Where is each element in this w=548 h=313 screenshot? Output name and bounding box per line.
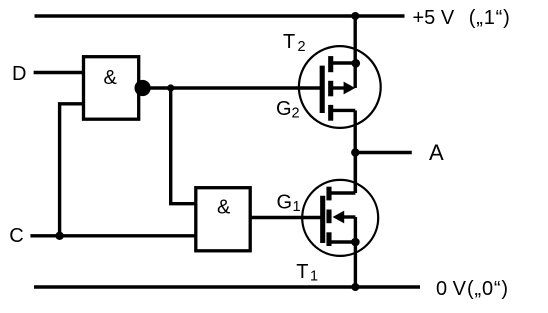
svg-text:&: & <box>217 197 231 219</box>
inverter bubble on U1 output <box>135 80 151 96</box>
svg-text:2: 2 <box>292 106 300 122</box>
svg-text:1: 1 <box>310 269 318 285</box>
wire: T1 drain up to node A <box>354 153 357 194</box>
transistor T1 (n-channel MOSFET) <box>302 153 378 288</box>
T1 gate electrode bar <box>320 196 325 243</box>
wire: U2 output to gate G1 of T1 <box>250 216 320 219</box>
svg-text:1: 1 <box>293 199 301 215</box>
node: T1 bulk-source tie <box>351 238 360 247</box>
wire: D input to upper gate <box>34 71 85 74</box>
T2 bulk arrow (points out: p-channel) <box>344 82 356 95</box>
wire: C branch up to upper gate second input <box>60 104 85 236</box>
svg-text:2: 2 <box>298 39 306 55</box>
T1 bulk stub <box>343 215 355 218</box>
svg-text:G: G <box>277 192 293 214</box>
T1 source stub <box>331 240 356 243</box>
T1 body circle <box>302 180 378 256</box>
node: C branch junction <box>55 232 63 240</box>
node: T1 source junction on 0V rail <box>351 283 359 291</box>
wire: T1 source down to 0V rail <box>354 242 357 287</box>
svg-text:(„1“): („1“) <box>469 7 510 29</box>
T2 gate electrode bar <box>320 66 325 113</box>
svg-text:T: T <box>283 31 295 53</box>
AND gate U1 (upper, output inverted) <box>84 57 139 119</box>
T1 channel dash middle (bulk) <box>326 210 331 224</box>
svg-text:(„0“): („0“) <box>467 278 508 300</box>
node A junction <box>351 148 359 156</box>
T1 channel dash top (drain) <box>326 187 331 201</box>
T1 bulk arrow (points in: n-channel) <box>333 211 345 224</box>
T1 drain stub <box>331 191 356 194</box>
svg-text:D: D <box>12 63 26 85</box>
T2 channel dash bottom (source) <box>328 105 333 121</box>
svg-text:C: C <box>9 225 23 247</box>
0V supply rail <box>34 285 420 288</box>
wire: C input to lower gate <box>30 234 195 237</box>
node: T2 bulk-drain tie <box>352 59 361 68</box>
svg-text:&: & <box>104 67 118 89</box>
node: U1 output branch junction <box>167 84 174 91</box>
T2 drain stub <box>332 61 355 64</box>
wire: T1 bulk tie down to source <box>354 217 357 242</box>
svg-text:G: G <box>276 98 292 120</box>
T2 channel dash top (drain) <box>328 56 333 72</box>
T2 source stub <box>332 109 355 112</box>
svg-text:0 V: 0 V <box>436 278 467 300</box>
wire: branch down to lower gate first input <box>171 88 196 204</box>
svg-text:A: A <box>429 140 444 165</box>
svg-text:+5 V: +5 V <box>413 7 455 29</box>
T1 channel dash bottom (source) <box>326 232 331 246</box>
T2 bulk stub <box>332 86 345 89</box>
T2 body circle <box>299 46 381 128</box>
wire: node A down to T1 drain <box>354 153 357 194</box>
wire: T2 source down to node A <box>354 110 357 152</box>
+5V supply rail <box>35 14 405 17</box>
wire: T2 drain up to +5V rail / bulk tie down <box>354 15 357 89</box>
T2 channel dash middle (bulk) <box>328 81 333 97</box>
wire: U1 output to gate G2 of T2 <box>150 86 321 89</box>
svg-text:T: T <box>296 261 308 283</box>
wire: node A output <box>355 151 412 154</box>
transistor T2 (p-channel MOSFET) <box>299 15 381 153</box>
node: T2 drain junction on +5V rail <box>351 12 359 20</box>
AND gate U2 (lower) <box>196 188 250 251</box>
